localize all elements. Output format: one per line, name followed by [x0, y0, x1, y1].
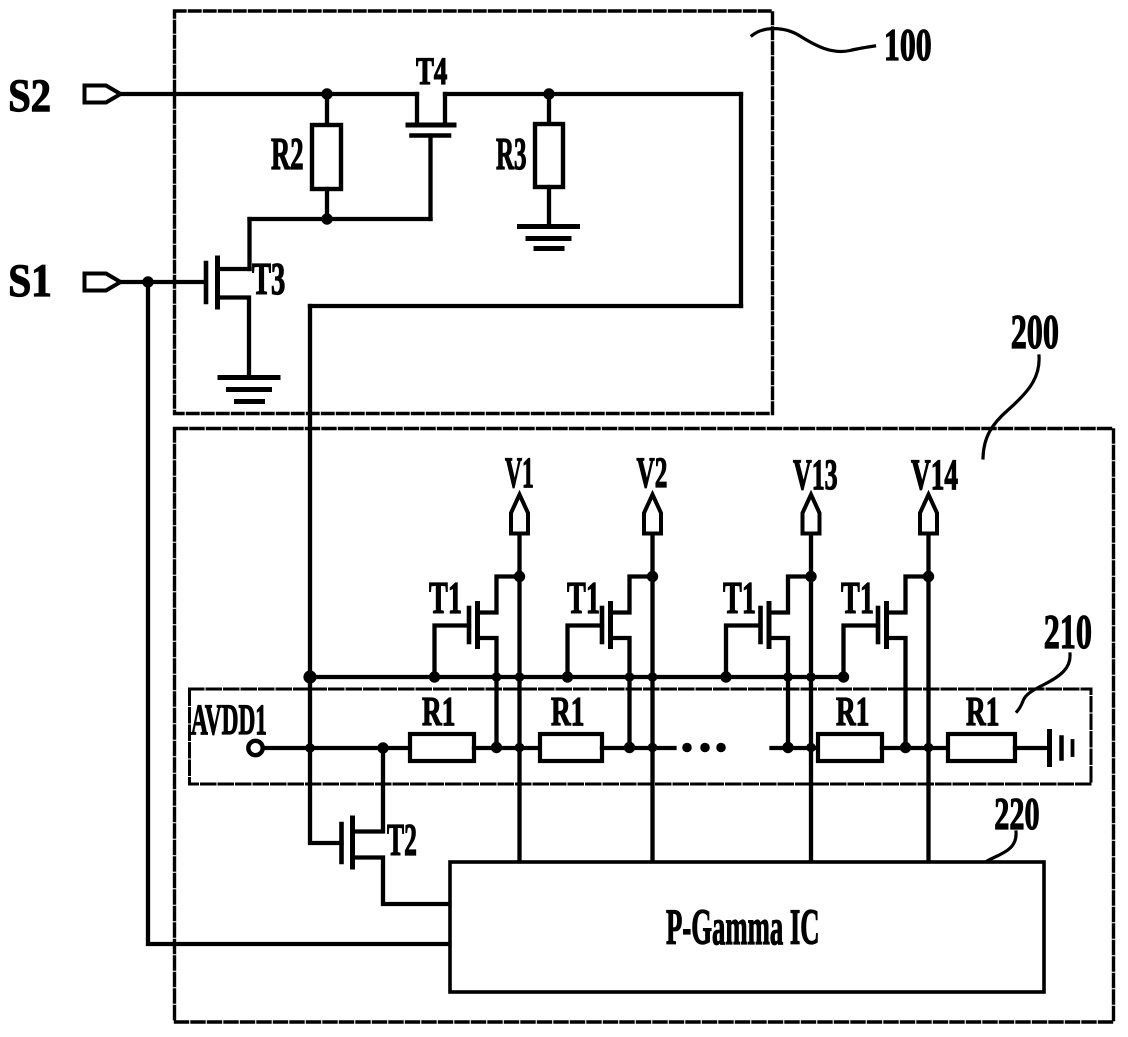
junction dot V13/bus	[806, 672, 816, 682]
transistor T1 (#3)	[726, 577, 811, 748]
svg-text:R1: R1	[836, 689, 869, 735]
label V13	[793, 450, 838, 498]
label R3	[496, 129, 527, 178]
junction dot V2/chain	[648, 743, 658, 753]
label T2	[387, 814, 417, 864]
node dot T1-1 gate on bus	[429, 671, 440, 682]
transistor T4	[408, 94, 454, 219]
ground for T3	[220, 378, 278, 402]
svg-text:P-Gamma IC: P-Gamma IC	[666, 899, 820, 955]
resistor R1 (4th)	[948, 734, 1015, 761]
transistor T2	[342, 748, 451, 904]
transistor T3	[206, 258, 250, 377]
wire into box 200	[308, 306, 312, 677]
ground at end of chain (rotated)	[1050, 732, 1073, 765]
node dot T1-3 source on chain	[782, 742, 793, 753]
terminal S2	[85, 86, 121, 103]
junction dot T1-2 source/bus crossing	[625, 672, 635, 682]
resistor R3	[535, 94, 563, 226]
terminal V1	[511, 495, 528, 534]
wire T3 drain riser	[247, 219, 251, 269]
svg-text:V13: V13	[793, 450, 838, 498]
wire R1-4 to ground	[1015, 746, 1048, 750]
label S2	[8, 70, 51, 121]
label R1 (2nd)	[551, 689, 584, 735]
svg-text:R1: R1	[966, 689, 999, 735]
node dot T1-3 drain on V line	[805, 571, 816, 582]
svg-text:200: 200	[1011, 304, 1059, 358]
wire R1-1 to R1-2	[474, 746, 540, 750]
label AVDD1	[191, 695, 267, 744]
node dot S2/R2	[321, 88, 332, 99]
svg-text:R2: R2	[271, 130, 304, 180]
wire R2 bottom to T4 gate	[250, 217, 431, 221]
svg-text:R1: R1	[551, 689, 584, 735]
resistor R1 (1st)	[410, 734, 474, 761]
node dot T1-2 gate on bus	[562, 671, 573, 682]
label 210	[1044, 604, 1092, 658]
label R1 (3rd)	[836, 689, 869, 735]
svg-text:R1: R1	[422, 689, 455, 735]
svg-text:T1: T1	[567, 575, 600, 624]
node dot T1-4 source on chain	[900, 742, 911, 753]
node dot T1-1 source on chain	[491, 742, 502, 753]
label T4	[416, 50, 448, 93]
label 100	[884, 19, 932, 70]
node dot T2 drain	[377, 742, 388, 753]
node dot T1-1 drain on V line	[514, 571, 525, 582]
svg-text:AVDD1: AVDD1	[191, 695, 267, 744]
node dot bus/box-100 wire	[303, 670, 316, 683]
wire R1-3 to R1-4	[882, 746, 948, 750]
label T3	[252, 255, 285, 305]
label R1 (4th)	[966, 689, 999, 735]
svg-text:T2: T2	[387, 814, 417, 864]
node dot T1-3 gate on bus	[720, 671, 731, 682]
svg-text:T1: T1	[841, 575, 874, 624]
svg-text:S1: S1	[8, 255, 52, 307]
label R1 (1st)	[422, 689, 455, 735]
svg-text:T1: T1	[723, 575, 756, 624]
transistor T1 (#2)	[568, 577, 653, 748]
terminal S1	[85, 274, 121, 291]
ellipsis dots	[682, 743, 726, 753]
wire bottom of loop	[310, 304, 741, 308]
node dot S1	[142, 276, 153, 287]
svg-text:210: 210	[1044, 604, 1092, 658]
P-Gamma IC box U220	[450, 862, 1044, 992]
terminal V13	[803, 495, 820, 534]
transistor T1 (#4)	[844, 577, 929, 748]
label T1 (#4)	[841, 575, 874, 624]
terminal V2	[644, 495, 661, 534]
node AVDD1 (open circle)	[248, 741, 262, 755]
wire S1 down to P-Gamma IC	[148, 282, 450, 944]
wire S1 to T3 gate	[121, 280, 205, 284]
wire output V13	[809, 534, 813, 862]
resistor R2	[312, 94, 341, 219]
node dot T1-4 gate on bus	[838, 671, 849, 682]
wire output V14	[926, 534, 930, 862]
terminal V14	[920, 495, 937, 534]
label 200	[1011, 304, 1059, 358]
node line (T1 gate bus)	[310, 675, 844, 679]
node dot S2/R3	[543, 88, 554, 99]
wire T4 to R3/right	[445, 92, 741, 96]
wire output V1	[517, 534, 521, 862]
junction dot V1/bus	[515, 672, 525, 682]
junction dot V2/bus	[648, 672, 658, 682]
label S1	[8, 255, 52, 307]
junction dot V13/chain	[806, 743, 816, 753]
label V1	[505, 449, 534, 497]
label T1 (#2)	[567, 575, 600, 624]
ground for R3	[520, 227, 578, 249]
svg-text:100: 100	[884, 19, 932, 70]
leader to 200	[983, 356, 1039, 458]
node dot T1-4 drain on V line	[923, 571, 934, 582]
box 200 (dashed region)	[175, 429, 1114, 1023]
box 100 (dashed region)	[175, 11, 773, 414]
wire R1-2 to ellipsis	[602, 746, 675, 750]
svg-text:V14: V14	[911, 451, 958, 499]
label V14	[911, 451, 958, 499]
junction dot V14/chain	[924, 743, 934, 753]
node dot T1-2 source on chain	[624, 742, 635, 753]
svg-text:T3: T3	[252, 255, 285, 305]
leader to 220	[972, 832, 1016, 884]
junction dot V1/chain	[515, 743, 525, 753]
label P-Gamma IC	[666, 899, 820, 955]
label 220	[994, 789, 1039, 840]
junction dot T1-1 source/bus crossing	[492, 672, 502, 682]
leader to 100	[752, 29, 875, 52]
leader to 210	[1017, 654, 1070, 712]
transistor T1 (#1)	[435, 577, 520, 748]
wire ellipsis to R1-3	[772, 746, 819, 750]
wire from bus down to T2 gate	[310, 677, 342, 843]
svg-text:T4: T4	[416, 50, 448, 93]
label R2	[271, 130, 304, 180]
label V2	[637, 449, 668, 497]
junction dot T1-3 source/bus crossing	[783, 672, 793, 682]
wire S2 to T4	[121, 92, 418, 96]
node dot bus end	[839, 672, 849, 682]
junction dot wire x310	[305, 743, 315, 753]
svg-text:V1: V1	[505, 449, 534, 497]
label T1 (#3)	[723, 575, 756, 624]
wire output V2	[650, 534, 654, 862]
svg-text:R3: R3	[496, 129, 527, 178]
wire AVDD1 to R1	[263, 746, 410, 750]
node dot T1-2 drain on V line	[647, 571, 658, 582]
resistor R1 (2nd)	[540, 734, 602, 761]
box 210 (dashed region, resistor string)	[190, 689, 1092, 784]
label T1 (#1)	[429, 575, 462, 624]
svg-text:T1: T1	[429, 575, 462, 624]
resistor R1 (3rd)	[818, 734, 882, 761]
node dot R2 bottom	[321, 213, 332, 224]
svg-text:S2: S2	[8, 70, 51, 121]
wire right vertical	[739, 94, 743, 306]
svg-text:V2: V2	[637, 449, 668, 497]
